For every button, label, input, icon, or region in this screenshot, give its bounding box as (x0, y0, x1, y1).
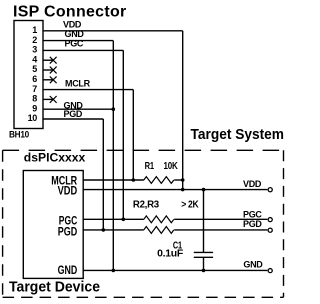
junction PGC vertical / PGC row (122, 218, 126, 222)
svg-text:GND: GND (243, 260, 263, 270)
dashed box left border (2, 150, 4, 297)
pin 5 no-connect stub (43, 69, 53, 71)
resistor R2 zigzag (144, 216, 174, 223)
wire GND vertical (pin2 down to GND row) (112, 41, 114, 271)
svg-text:PGD: PGD (64, 109, 83, 119)
terminal VDD circle (268, 188, 272, 192)
svg-text:R1: R1 (145, 161, 155, 172)
pin 6 no-connect X (50, 76, 57, 83)
wire MCLR row (chip to R1 left) (83, 179, 144, 181)
junction C1 bottom / GND row (202, 269, 206, 273)
svg-text:6: 6 (32, 74, 37, 84)
wire PGD row (chip to R3 left) (83, 229, 144, 231)
wire GND row (chip to terminal) (83, 269, 267, 271)
junction pin9 to GND vertical (112, 107, 116, 111)
wire pin9 GND horizontal (43, 108, 113, 110)
wire PGC row (chip to R2 left) (83, 218, 144, 220)
wire PGD vertical (pin10 down to PGD row) (102, 119, 104, 230)
capacitor C1 bottom plate (194, 256, 213, 258)
resistor R1 zigzag (144, 177, 174, 184)
terminal PGD circle (268, 228, 272, 232)
junction MCLR row / MCLR vertical (132, 178, 136, 182)
wire PGC vertical (pin3 down to PGC row) (122, 50, 124, 219)
dashed box bottom border (3, 296, 284, 298)
svg-text:2: 2 (32, 35, 37, 45)
wire R2 right to PGC terminal (174, 218, 267, 220)
svg-text:5: 5 (32, 64, 37, 74)
svg-text:PGD: PGD (58, 226, 78, 238)
svg-text:VDD: VDD (243, 179, 262, 189)
pin 4 no-connect stub (43, 59, 53, 61)
terminal PGC circle (268, 218, 272, 222)
svg-text:PGC: PGC (65, 39, 84, 49)
svg-text:7: 7 (32, 84, 37, 94)
svg-text:10K: 10K (164, 161, 179, 172)
connector J1 body (BH10 header) (14, 21, 43, 129)
svg-text:PGD: PGD (243, 219, 262, 229)
svg-text:GND: GND (58, 265, 78, 277)
svg-text:PGC: PGC (243, 209, 262, 219)
wire pin10 PGD horizontal (43, 118, 103, 120)
svg-text:ISP Connector: ISP Connector (13, 4, 127, 21)
pin 4 no-connect X (50, 57, 57, 64)
dashed box top border (Target System boundary) (3, 149, 284, 151)
capacitor C1 bottom lead (203, 257, 205, 270)
svg-text:4: 4 (32, 54, 37, 64)
svg-text:Target System: Target System (191, 126, 285, 143)
terminal GND circle (268, 269, 272, 273)
svg-text:> 2K: > 2K (181, 199, 199, 210)
pin 8 no-connect stub (43, 98, 53, 100)
pin 6 no-connect stub (43, 79, 53, 81)
svg-text:R2,R3: R2,R3 (133, 199, 160, 210)
dashed box right border (283, 150, 285, 297)
wire MCLR vertical (pin7 down to MCLR row) (132, 90, 134, 180)
wire VDD vertical (pin1 down to VDD row) (182, 31, 184, 190)
svg-text:10: 10 (28, 113, 38, 123)
resistor R3 zigzag (144, 227, 174, 234)
wire pin1 VDD horizontal (43, 30, 183, 32)
svg-text:9: 9 (32, 103, 37, 113)
wire R1 right to VDD vertical (174, 179, 183, 181)
wire pin2 GND horizontal (43, 40, 113, 42)
svg-text:MCLR: MCLR (65, 79, 91, 89)
pin 5 no-connect X (50, 67, 57, 74)
capacitor C1 top lead (203, 190, 205, 253)
svg-text:8: 8 (32, 94, 37, 104)
wire VDD row (chip to terminal) (83, 189, 267, 191)
capacitor C1 top plate (194, 251, 213, 253)
junction C1 top / VDD row (202, 188, 206, 192)
svg-text:3: 3 (32, 45, 37, 55)
junction PGD vertical / PGD row (102, 228, 106, 232)
svg-text:0.1uF: 0.1uF (157, 249, 183, 260)
svg-text:1: 1 (32, 25, 37, 35)
wire pin7 MCLR horizontal (43, 89, 133, 91)
junction GND vertical / GND row (112, 269, 116, 273)
svg-text:dsPICxxxx: dsPICxxxx (24, 151, 86, 165)
junction R1 right / VDD vertical (181, 178, 185, 182)
wire R3 right to PGD terminal (174, 229, 267, 231)
wire pin3 PGC horizontal (43, 49, 123, 51)
svg-text:VDD: VDD (63, 19, 82, 29)
junction VDD vertical / VDD row (181, 188, 185, 192)
svg-text:Target Device: Target Device (9, 278, 100, 295)
svg-text:GND: GND (65, 29, 85, 39)
pin 8 no-connect X (50, 96, 57, 103)
svg-text:BH10: BH10 (9, 130, 29, 140)
svg-text:VDD: VDD (58, 186, 78, 198)
target device U1 body (dsPIC) (23, 171, 83, 279)
